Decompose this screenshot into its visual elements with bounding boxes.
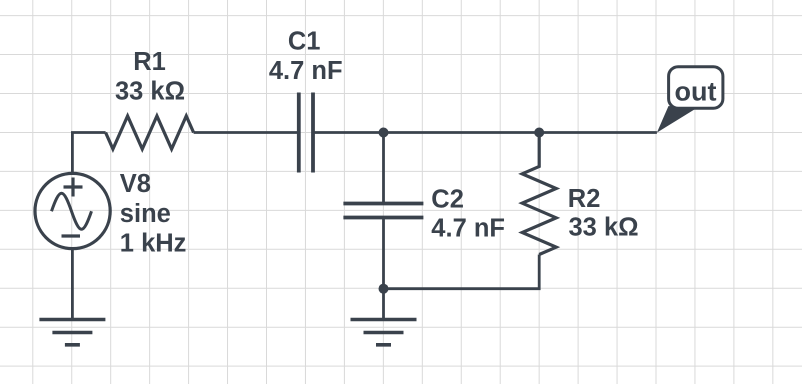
ground under C2	[351, 320, 417, 345]
resistor R1	[106, 116, 194, 149]
svg-text:C2: C2	[431, 185, 464, 213]
wire bottom node to ground	[382, 289, 385, 320]
node dot bottom	[379, 284, 389, 294]
svg-text:out: out	[675, 77, 717, 107]
node dot top-left	[379, 128, 389, 138]
svg-text:33 kΩ: 33 kΩ	[569, 214, 639, 242]
wire R2-bottom to bottom node	[384, 255, 540, 289]
svg-text:33 kΩ: 33 kΩ	[115, 77, 185, 105]
resistor R2	[522, 133, 556, 255]
wire C2 to bottom node	[382, 218, 385, 289]
out flag	[657, 67, 723, 133]
svg-text:R1: R1	[133, 48, 166, 76]
node dot top-right	[534, 128, 544, 138]
wire node to C2	[382, 133, 385, 204]
capacitor C1	[299, 93, 313, 173]
svg-text:V8: V8	[120, 170, 151, 198]
svg-text:4.7 nF: 4.7 nF	[269, 57, 343, 85]
svg-text:1 kHz: 1 kHz	[120, 230, 187, 258]
svg-text:4.7 nF: 4.7 nF	[431, 215, 505, 243]
wire source-top to R1	[72, 133, 105, 174]
svg-text:R2: R2	[568, 185, 601, 213]
capacitor C2	[343, 204, 423, 218]
voltage source V8	[35, 173, 110, 248]
svg-text:C1: C1	[288, 28, 321, 56]
wire R1 to C1	[194, 131, 299, 134]
svg-text:sine: sine	[120, 200, 171, 228]
ground under source	[39, 320, 105, 345]
wire C1 to out flag	[313, 131, 657, 134]
wire source-bottom to ground	[71, 249, 74, 320]
